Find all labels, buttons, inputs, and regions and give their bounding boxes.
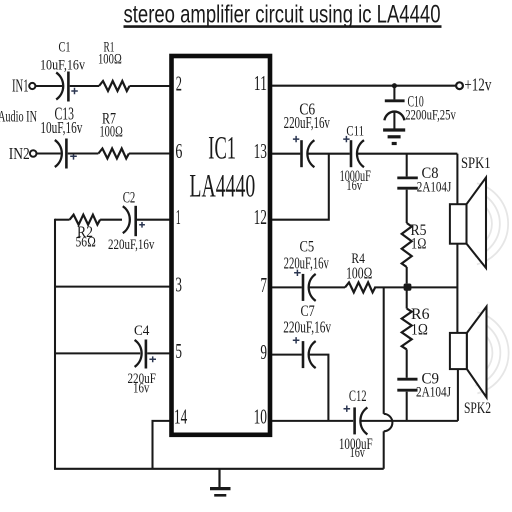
wire C13 to R7 — [68, 152, 99, 154]
wire C1 to R1 — [70, 85, 99, 87]
svg-text:220uF,16v: 220uF,16v — [283, 317, 331, 336]
resistor R5 1 Ohm — [402, 222, 427, 284]
svg-text:C4: C4 — [134, 323, 150, 339]
wire R2 to C2 — [100, 219, 122, 221]
wire SPK1 riser top — [456, 154, 458, 205]
wire left bus vertical — [54, 219, 56, 469]
svg-text:1Ω: 1Ω — [411, 236, 427, 253]
svg-text:7: 7 — [260, 273, 267, 297]
wire C12 to SPK2 riser — [361, 420, 458, 422]
wire left bus corner to R2 — [55, 219, 70, 221]
capacitor C13 10uF,16v — [40, 103, 82, 168]
svg-text:2200uF,25v: 2200uF,25v — [405, 108, 456, 124]
svg-text:LA4440: LA4440 — [189, 169, 255, 205]
svg-text:16v: 16v — [346, 178, 362, 194]
svg-text:16v: 16v — [350, 445, 366, 461]
capacitor C1 10uF,16v — [40, 40, 86, 102]
node +12v terminal — [456, 75, 491, 95]
svg-text:220uF,16v: 220uF,16v — [284, 253, 330, 272]
svg-text:IN1: IN1 — [12, 75, 29, 95]
capacitor C10 2200uF,25v — [384, 86, 456, 129]
node IN1 terminal — [12, 75, 35, 95]
wire C5 to R4 — [309, 286, 345, 288]
svg-text:stereo amplifier circuit using: stereo amplifier circuit using ic LA4440 — [124, 0, 441, 28]
svg-text:14: 14 — [174, 405, 188, 429]
svg-text:3: 3 — [175, 272, 182, 296]
svg-text:100Ω: 100Ω — [98, 52, 122, 68]
wire C7 drop to pin 10 row — [309, 355, 328, 421]
wire R7 to pin 6 — [129, 152, 170, 154]
svg-text:10uF,16v: 10uF,16v — [40, 58, 86, 74]
wire C4 to pin 5 — [147, 352, 169, 354]
resistor R2 56 Ohm — [70, 215, 101, 251]
title: stereo amplifier circuit using ic LA4440 — [124, 0, 442, 28]
capacitor C2 220uF,16v — [108, 190, 155, 254]
svg-text:12: 12 — [254, 205, 267, 229]
resistor R1 100 Ohm — [98, 40, 130, 92]
svg-text:1Ω: 1Ω — [411, 321, 428, 338]
capacitor C4 220uF 16v — [128, 323, 157, 396]
node junction on +12v rail — [392, 83, 397, 88]
svg-text:2A104J: 2A104J — [417, 180, 452, 196]
svg-text:SPK2: SPK2 — [464, 400, 491, 417]
wire pin 9 to C7 — [272, 354, 302, 356]
op-amp U1 IC1 LA4440 body — [172, 56, 271, 435]
svg-text:6: 6 — [175, 139, 182, 163]
svg-text:+12v: +12v — [464, 75, 491, 95]
svg-text:10uF,16v: 10uF,16v — [40, 118, 82, 137]
svg-text:16v: 16v — [133, 380, 150, 396]
svg-text:IC1: IC1 — [208, 130, 236, 166]
node junction R5 R6 R4 — [404, 284, 412, 291]
wire IN2 to C13 — [37, 152, 61, 154]
ground under C10 — [383, 130, 405, 144]
svg-text:220uF,16v: 220uF,16v — [108, 237, 155, 253]
wire SPK2 riser bottom — [457, 369, 459, 421]
svg-text:56Ω: 56Ω — [76, 235, 97, 251]
svg-text:100Ω: 100Ω — [100, 124, 124, 141]
svg-text:C12: C12 — [349, 388, 367, 405]
wire R4 node drop to ground bus with hop — [384, 287, 393, 468]
wire IN1 to C1 — [36, 85, 62, 87]
svg-text:C11: C11 — [346, 123, 364, 139]
wire left bus to pin 3 — [55, 286, 170, 288]
wire pin 7 to C5 — [272, 286, 302, 288]
wire pin 12 riser — [272, 154, 329, 220]
capacitor C11 1000uF 16v — [340, 123, 371, 194]
svg-text:220uF,16v: 220uF,16v — [284, 113, 331, 132]
svg-text:SPK1: SPK1 — [461, 155, 491, 172]
wire C11 to SPK1 riser — [357, 153, 457, 155]
node IN2 terminal — [9, 144, 37, 163]
wire C2 to pin 1 — [137, 219, 170, 221]
wire R4 to SPK column — [374, 286, 457, 288]
capacitor C5 220uF,16v — [284, 239, 330, 301]
capacitor C12 1000uF 16v — [339, 388, 373, 461]
ground — [210, 469, 231, 496]
svg-text:IN2: IN2 — [9, 144, 30, 163]
capacitor C9 2A104J — [397, 371, 451, 421]
svg-text:Audio IN: Audio IN — [0, 108, 37, 125]
svg-text:1: 1 — [176, 205, 181, 229]
svg-text:C1: C1 — [59, 40, 71, 56]
svg-text:R6: R6 — [411, 306, 430, 323]
svg-text:5: 5 — [175, 339, 182, 363]
capacitor C8 2A104J — [397, 154, 451, 223]
svg-text:13: 13 — [254, 139, 267, 163]
speaker SPK1 — [450, 155, 508, 268]
svg-text:2A104J: 2A104J — [416, 385, 451, 401]
wire R1 to pin 2 — [130, 85, 170, 87]
speaker SPK2 — [450, 307, 509, 417]
svg-text:C2: C2 — [123, 190, 136, 207]
capacitor C7 220uF,16v — [283, 303, 331, 368]
wire pin 14 stub — [153, 421, 170, 469]
capacitor C6 220uF,16v — [284, 100, 331, 168]
resistor R7 100 Ohm — [98, 111, 129, 159]
wire left bus to C4 — [55, 352, 140, 354]
wire bottom ground bus — [54, 468, 384, 470]
wire C6 to C11 — [308, 153, 350, 155]
resistor R6 1 Ohm — [402, 290, 430, 377]
wire pin 11 to +12v terminal — [272, 85, 456, 87]
wire SPK1 to SPK2 riser — [456, 244, 458, 333]
svg-text:9: 9 — [260, 340, 267, 364]
svg-text:11: 11 — [254, 71, 267, 95]
svg-text:2: 2 — [176, 72, 182, 96]
svg-text:10: 10 — [254, 405, 267, 429]
resistor R4 100 Ohm — [345, 251, 375, 292]
svg-text:100Ω: 100Ω — [346, 264, 372, 283]
wire pin 13 to C6 — [272, 153, 300, 155]
wire pin 10 to C12 — [272, 420, 353, 422]
